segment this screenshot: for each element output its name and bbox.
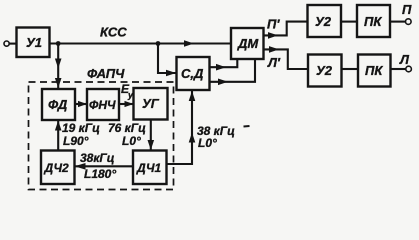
wire ДЧ1 to ДЧ2	[75, 165, 133, 167]
input terminal circle	[4, 41, 9, 46]
low-pass filter ФНЧ	[87, 89, 119, 120]
svg-text:19 кГц: 19 кГц	[62, 121, 100, 135]
dash mark after 38 кГц	[244, 125, 250, 128]
wire ДЧ1 right up to С.Д (38 кГц reference)	[167, 91, 193, 165]
wire arrowhead on КСС toward ДМ	[184, 40, 194, 47]
output terminal Л circle	[406, 66, 412, 72]
dashed box ФАПЧ	[29, 82, 174, 190]
wire input to У1	[9, 43, 16, 45]
headphone corrector ПК top	[357, 5, 390, 37]
wire ДЧ2 up to ФД	[57, 121, 59, 151]
svg-text:L0°: L0°	[122, 134, 141, 148]
svg-text:П: П	[402, 2, 412, 17]
svg-text:L0°: L0°	[198, 136, 217, 150]
wire ДМ output П′ to У2	[264, 22, 308, 36]
wire С.Д bottom output to ДМ bottom	[210, 59, 256, 82]
svg-text:ДЧ1: ДЧ1	[136, 161, 161, 175]
amplifier У2 bottom	[308, 55, 342, 87]
svg-text:У2: У2	[316, 63, 333, 78]
divider ДЧ2	[41, 151, 75, 185]
svg-text:С,Д: С,Д	[181, 66, 204, 81]
svg-text:У2: У2	[315, 14, 332, 29]
stereo detector С.Д	[177, 57, 210, 90]
svg-text:ФНЧ: ФНЧ	[89, 98, 116, 112]
wire С.Д top output to ДМ bottom	[210, 59, 238, 67]
svg-text:КСС: КСС	[100, 25, 127, 40]
wire У2 to ПК top	[341, 21, 357, 23]
wire УГ down to ДЧ1	[150, 120, 152, 151]
node junction on КСС at x158	[156, 41, 161, 46]
wire drop from КСС into ФД	[57, 44, 59, 89]
svg-text:L90°: L90°	[63, 134, 89, 148]
wire ПК to П terminal	[390, 21, 406, 23]
wire ДМ output Л′ to У2	[264, 49, 309, 69]
svg-text:Л′: Л′	[267, 55, 281, 70]
svg-text:76 кГц: 76 кГц	[108, 121, 146, 135]
svg-text:ФАПЧ: ФАПЧ	[87, 66, 125, 81]
wire drop from КСС into С.Д	[158, 44, 176, 74]
wire КСС bus У1 to ДМ	[50, 42, 232, 44]
headphone corrector ПК bottom	[358, 55, 391, 87]
divider ДЧ1	[133, 151, 167, 185]
svg-text:УГ: УГ	[142, 96, 160, 111]
svg-text:у: у	[127, 90, 134, 100]
wire ПК to Л terminal	[391, 68, 406, 70]
wire ФД to ФНЧ	[75, 103, 87, 105]
svg-text:38кГц: 38кГц	[80, 151, 115, 165]
svg-text:ДЧ2: ДЧ2	[44, 161, 69, 175]
wire У2 to ПК bottom	[342, 68, 358, 70]
wire ФНЧ to УГ	[119, 103, 133, 105]
svg-text:ПК: ПК	[365, 63, 383, 78]
phase detector ФД	[42, 89, 75, 120]
amplifier У1	[17, 28, 50, 58]
svg-text:ФД: ФД	[48, 97, 68, 112]
output terminal П circle	[406, 19, 412, 25]
oscillator УГ	[134, 88, 168, 120]
demodulator ДМ	[231, 28, 264, 59]
svg-text:ПК: ПК	[364, 14, 382, 29]
svg-text:П′: П′	[267, 17, 280, 32]
amplifier У2 top	[308, 5, 342, 37]
svg-text:Л: Л	[399, 52, 410, 67]
svg-text:ДМ: ДМ	[237, 36, 259, 51]
svg-text:L180°: L180°	[84, 167, 116, 181]
svg-text:У1: У1	[26, 35, 42, 50]
node junction on КСС at x58	[56, 41, 61, 46]
